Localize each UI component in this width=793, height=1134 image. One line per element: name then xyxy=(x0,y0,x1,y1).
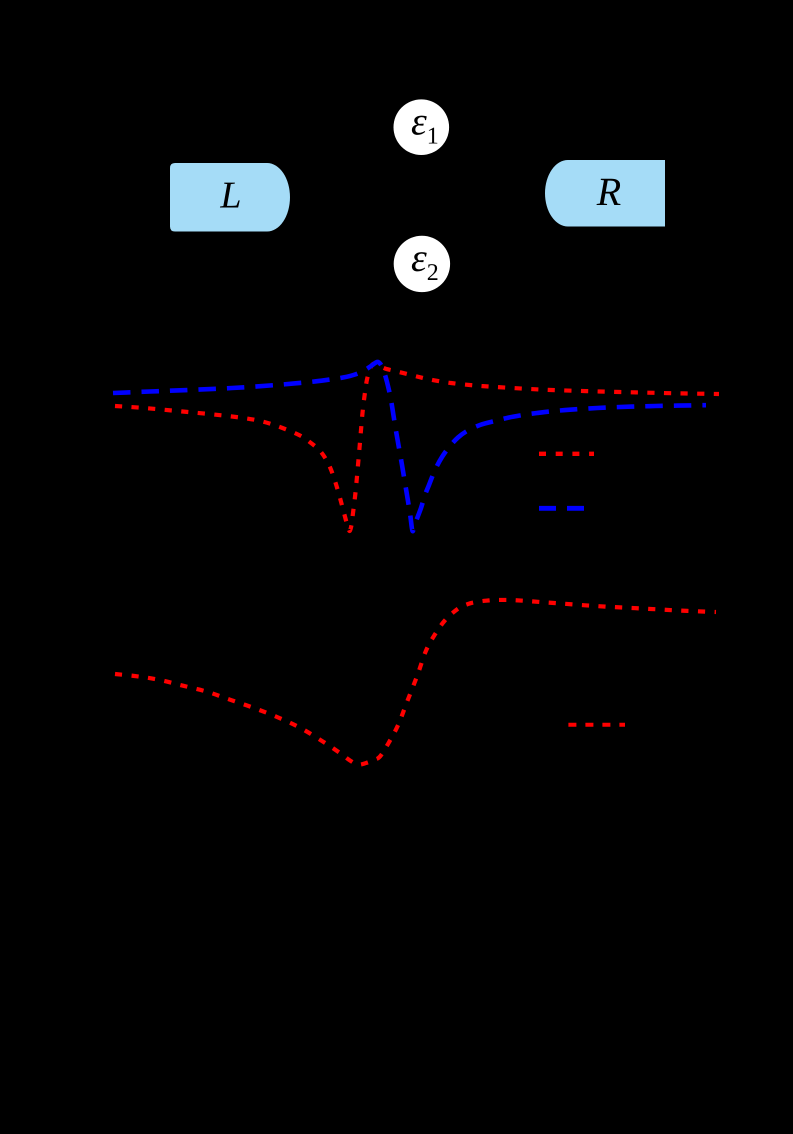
lead R (blue electrode box) xyxy=(545,160,665,227)
dot level eps2 (white circle) xyxy=(394,236,450,292)
lower legend: red dotted sample xyxy=(568,723,625,727)
dot level eps1 (white circle) xyxy=(394,99,450,155)
middle panel: blue dashed curve xyxy=(113,362,706,531)
svg-text:R: R xyxy=(596,169,621,214)
svg-text:L: L xyxy=(219,175,241,217)
lead L (blue electrode box) xyxy=(170,163,290,232)
lower panel: red dotted curve xyxy=(115,600,716,765)
middle legend: blue dashed sample xyxy=(539,506,584,511)
middle legend: red dotted sample xyxy=(539,452,594,456)
middle panel: red dotted curve xyxy=(115,363,719,531)
